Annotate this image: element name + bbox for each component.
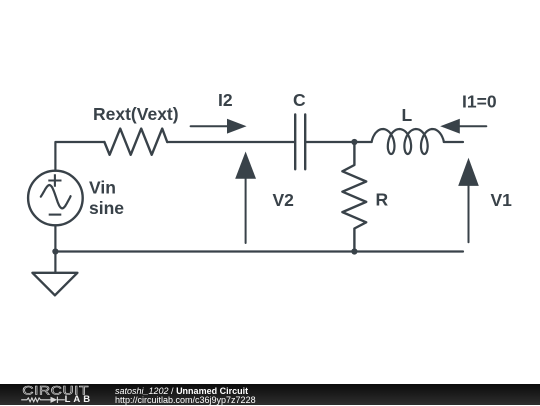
svg-text:R: R — [376, 189, 389, 209]
wire capacitor to node A — [305, 141, 354, 143]
svg-text:V1: V1 — [491, 190, 513, 210]
voltage arrow V1 head — [458, 158, 479, 186]
CircuitLab logo — [0, 384, 100, 405]
svg-text:I2: I2 — [218, 90, 233, 110]
wire resistor to capacitor — [167, 141, 295, 143]
capacitor C plates — [295, 115, 305, 170]
voltage source sine wave — [41, 185, 71, 208]
bottom rail wire — [55, 250, 463, 252]
voltage arrow V2 head — [235, 152, 256, 179]
resistor Rext(Vext) — [104, 129, 167, 155]
ground symbol triangle — [32, 273, 77, 296]
wire source bottom to ground node — [54, 225, 56, 251]
wire top-left vertical from Vin top to top rail — [55, 142, 104, 171]
svg-text:V2: V2 — [273, 190, 295, 210]
current arrow I1=0 head — [440, 119, 460, 134]
svg-text:L: L — [402, 105, 413, 125]
svg-text:I1=0: I1=0 — [462, 92, 497, 112]
node A junction dot — [351, 139, 357, 145]
footer text — [115, 387, 256, 406]
ground node junction dot — [52, 248, 58, 254]
svg-text:Vin: Vin — [89, 178, 116, 198]
svg-text:Rext(Vext): Rext(Vext) — [93, 104, 179, 124]
current arrow I2 head — [227, 119, 247, 134]
logo wire + resistor + diode — [21, 397, 65, 403]
current arrow I1=0 shaft — [448, 125, 486, 127]
svg-text:C: C — [293, 90, 306, 110]
minus sign of source — [49, 214, 62, 216]
wire node A to inductor — [354, 141, 371, 143]
voltage arrow V1 shaft — [468, 182, 470, 242]
resistor R vertical — [342, 142, 366, 252]
voltage arrow V2 shaft — [245, 176, 247, 243]
node B junction dot (bottom of R) — [351, 248, 357, 254]
voltage source Vin circle — [28, 171, 83, 226]
wire after inductor to right end — [444, 140, 463, 143]
footer bar — [0, 384, 540, 405]
svg-text:LAB: LAB — [65, 394, 94, 405]
plus sign of source — [48, 174, 61, 187]
wire ground node down to ground symbol — [54, 252, 56, 273]
svg-text:sine: sine — [89, 198, 124, 218]
current arrow I2 shaft — [191, 125, 229, 127]
inductor L coil — [372, 129, 444, 154]
